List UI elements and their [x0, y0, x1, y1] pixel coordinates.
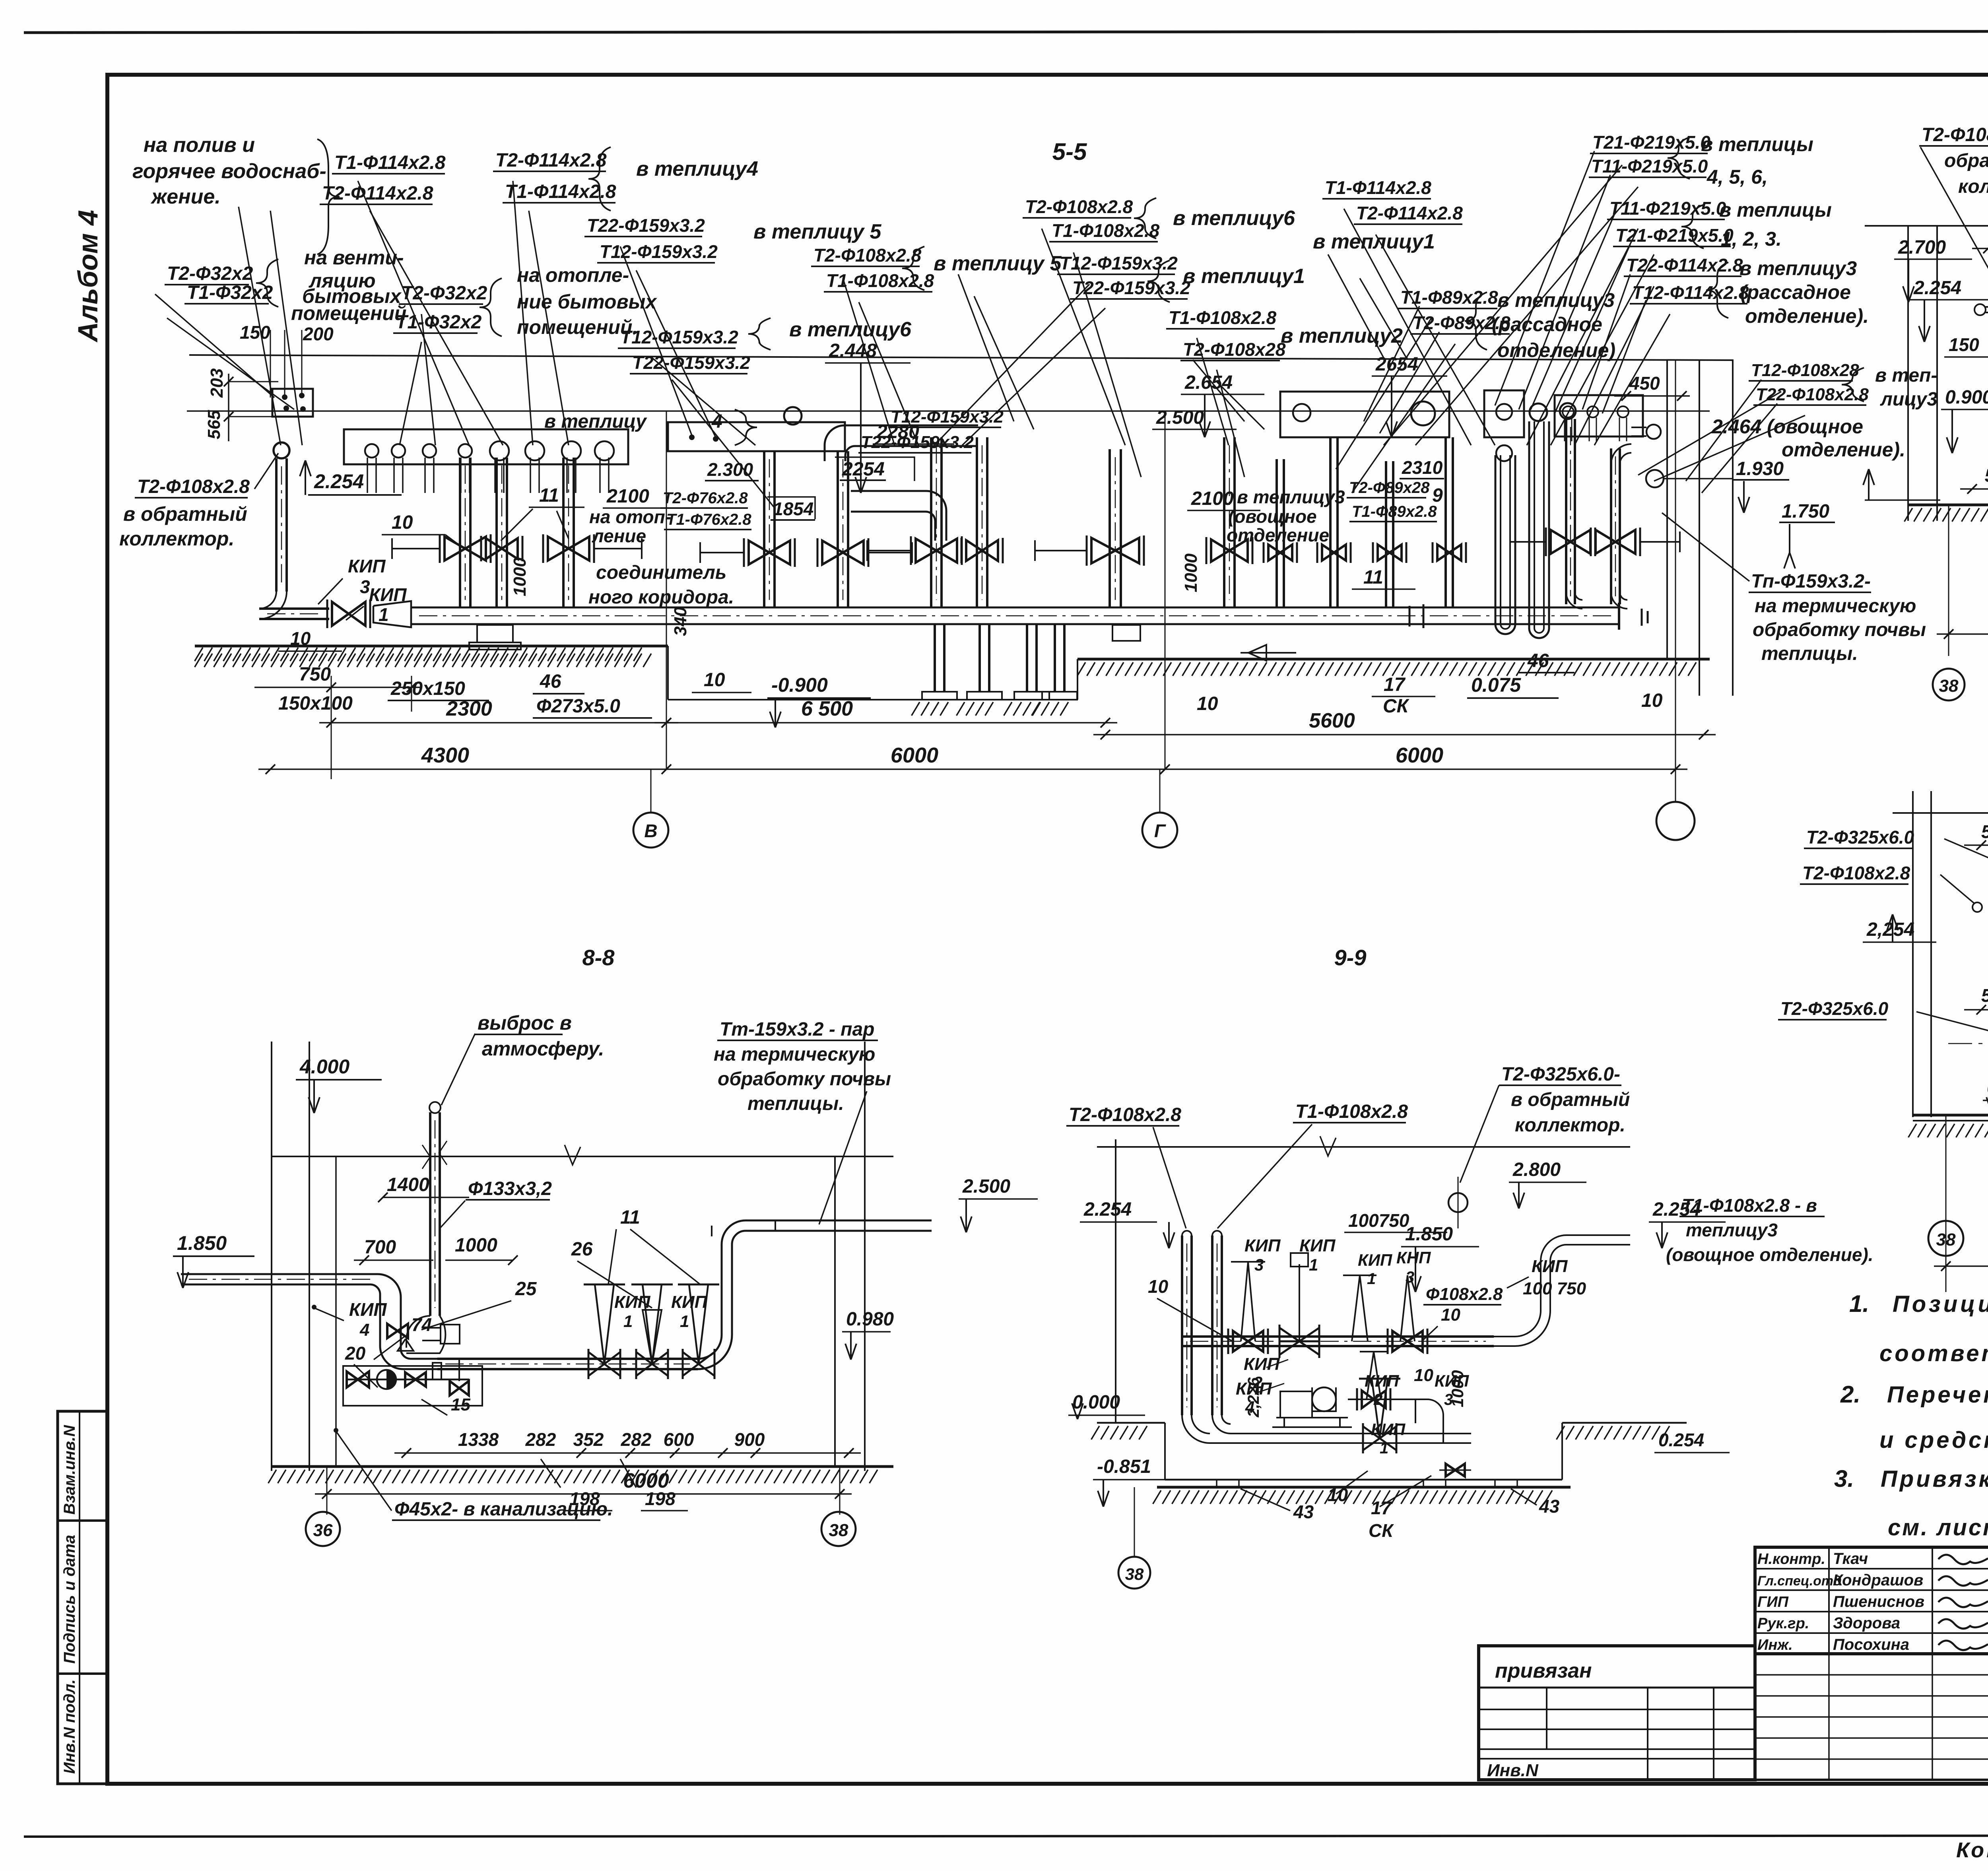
ceiling line upper	[189, 355, 1734, 360]
svg-text:10: 10	[1148, 1276, 1169, 1297]
svg-text:Альбом 4: Альбом 4	[72, 210, 103, 343]
svg-text:соответствуют спецификации.: соответствуют спецификации.	[1879, 1341, 1988, 1366]
svg-text:в теплицу 5: в теплицу 5	[934, 252, 1062, 275]
svg-text:в теп-: в теп-	[1875, 365, 1937, 386]
svg-text:в теплицу3: в теплицу3	[1237, 487, 1345, 507]
svg-text:(овощное: (овощное	[1228, 506, 1317, 527]
svg-text:10: 10	[1414, 1366, 1433, 1385]
svg-text:на отоп-: на отоп-	[589, 506, 671, 527]
valve right b	[1596, 530, 1635, 554]
below-floor pipe	[978, 624, 981, 692]
9-9 ceiling line	[1097, 1146, 1630, 1148]
svg-text:10: 10	[1641, 690, 1663, 711]
svg-text:Т2-Ф108х2.8: Т2-Ф108х2.8	[813, 245, 922, 266]
8-8 pipe joint marks upper	[711, 1226, 712, 1236]
main pipe support 1	[477, 625, 513, 642]
svg-text:2.448: 2.448	[829, 340, 877, 361]
thin drop f	[1444, 437, 1447, 608]
svg-text:Гл.спец.отд: Гл.спец.отд	[1757, 1573, 1842, 1589]
6-6 dim row	[1960, 488, 1988, 490]
svg-text:5-5: 5-5	[1052, 138, 1087, 165]
pipe outlet circle	[392, 444, 405, 458]
svg-text:Привязки труб и отверстий в: Привязки труб и отверстий в стене	[1881, 1466, 1988, 1492]
svg-text:1.850: 1.850	[177, 1232, 227, 1254]
9-9 bubble 38	[1118, 1557, 1150, 1589]
grid bubble V	[633, 813, 668, 848]
9-9 tall triangle a	[1231, 1262, 1265, 1341]
svg-text:Перечень отборных устройств: Перечень отборных устройств КИП	[1887, 1382, 1988, 1408]
svg-text:10: 10	[392, 512, 413, 533]
inlet valve bowtie	[332, 602, 365, 626]
7-7 centerline	[1948, 1043, 1988, 1044]
9-9 mid gate valve	[1279, 1328, 1319, 1355]
9-9 stem box	[1299, 1264, 1300, 1341]
8-8 bubble 38	[821, 1512, 856, 1546]
svg-text:4: 4	[359, 1320, 369, 1340]
svg-text:2.500: 2.500	[1156, 407, 1204, 428]
right elbow top circle	[1646, 425, 1661, 439]
svg-text:Т22-Ф159х3.2: Т22-Ф159х3.2	[632, 352, 750, 373]
8-8 wall right lines	[834, 1156, 836, 1467]
svg-text:600: 600	[664, 1429, 694, 1450]
svg-text:Т2-Ф114х2.8: Т2-Ф114х2.8	[495, 150, 607, 171]
svg-text:(овощное отделение).: (овощное отделение).	[1666, 1244, 1873, 1265]
svg-text:КИП: КИП	[614, 1292, 651, 1312]
svg-text:Т11-Ф219х5.0: Т11-Ф219х5.0	[1591, 156, 1708, 177]
svg-text:4.000: 4.000	[299, 1055, 349, 1078]
9-9 small circle	[1448, 1193, 1468, 1212]
svg-text:Рук.гр.: Рук.гр.	[1757, 1615, 1809, 1632]
outlet circle box5	[1587, 406, 1598, 417]
svg-text:выброс в: выброс в	[478, 1012, 572, 1034]
svg-text:в теплицу: в теплицу	[544, 411, 647, 432]
dim 750	[331, 676, 332, 779]
privyazan box	[1479, 1646, 1755, 1780]
svg-text:565: 565	[204, 410, 224, 439]
sheet top border line	[24, 31, 1988, 33]
valve on drop pipe 1	[445, 537, 486, 561]
svg-text:2254: 2254	[842, 459, 885, 480]
small globe valve 1	[1268, 545, 1292, 561]
svg-text:в теплицу1: в теплицу1	[1313, 230, 1435, 253]
svg-text:38: 38	[1939, 676, 1959, 696]
svg-text:ление: ление	[592, 526, 646, 546]
8-8 dim 6000	[315, 1493, 852, 1495]
svg-text:43: 43	[1539, 1496, 1560, 1517]
8-8 ceiling line	[272, 1156, 893, 1157]
svg-text:1, 2, 3.: 1, 2, 3.	[1721, 228, 1782, 250]
small globe valve 2	[1322, 545, 1346, 561]
brace teplitsu6 right	[1134, 198, 1156, 239]
svg-text:ного коридора.: ного коридора.	[588, 587, 734, 608]
svg-text:Т2-Ф325х6.0-: Т2-Ф325х6.0-	[1501, 1064, 1620, 1085]
small globe valve 4	[1437, 545, 1461, 561]
svg-text:Т21-Ф219х5.0: Т21-Ф219х5.0	[1615, 225, 1734, 246]
svg-text:в теплицу6: в теплицу6	[1173, 207, 1295, 230]
8-8 drain valve 2	[405, 1372, 426, 1387]
svg-text:Т12-Ф159х3.2: Т12-Ф159х3.2	[600, 241, 718, 262]
valve on drop pipe 3	[548, 537, 589, 561]
svg-text:и средств автоматики см. лис: и средств автоматики см. листы 11, 12.	[1879, 1427, 1988, 1453]
svg-text:Взам.инв.N: Взам.инв.N	[61, 1425, 78, 1515]
svg-text:КИП: КИП	[349, 1299, 387, 1320]
svg-text:1: 1	[680, 1312, 689, 1331]
brace v tep-litsu3	[1842, 368, 1864, 402]
manifold box 5	[1555, 395, 1643, 436]
svg-text:200: 200	[303, 324, 334, 344]
leader to left pipe	[254, 453, 278, 489]
dim 6 500	[654, 722, 1117, 724]
9-9 pump line	[1348, 1399, 1415, 1400]
svg-text:Т12-Ф114х2.8: Т12-Ф114х2.8	[1632, 282, 1749, 303]
valve mid 1	[916, 539, 957, 563]
svg-text:на полив и: на полив и	[144, 134, 255, 157]
svg-text:3: 3	[1254, 1255, 1264, 1274]
svg-text:коллектор: коллектор	[1958, 176, 1988, 197]
9-9 pump assembly	[1280, 1391, 1312, 1418]
outlet circle box5	[1563, 406, 1574, 417]
svg-text:Т2-Ф325х6.0: Т2-Ф325х6.0	[1806, 827, 1914, 848]
svg-text:горячее водоснаб-: горячее водоснаб-	[132, 160, 326, 183]
svg-text:см. лист 9.: см. лист 9.	[1888, 1515, 1988, 1540]
svg-text:(рассадное: (рассадное	[1740, 281, 1851, 303]
8-8 main pipe	[437, 1358, 698, 1360]
svg-text:соединитель: соединитель	[596, 562, 726, 583]
svg-text:Т1-Ф76х2.8: Т1-Ф76х2.8	[666, 511, 751, 528]
svg-text:коллектор.: коллектор.	[1515, 1115, 1625, 1136]
svg-text:1.930: 1.930	[1736, 458, 1784, 479]
svg-text:Инж.: Инж.	[1757, 1637, 1793, 1653]
grid bubble G	[1142, 813, 1177, 848]
svg-text:1000: 1000	[1448, 1370, 1467, 1407]
svg-text:38: 38	[829, 1521, 848, 1540]
svg-text:450: 450	[1629, 373, 1660, 394]
svg-text:в теплицы: в теплицы	[1719, 199, 1832, 221]
brace teplitsu3 left	[1465, 292, 1487, 350]
9-9 pipe caps	[1182, 1231, 1222, 1236]
svg-text:1000: 1000	[510, 557, 530, 596]
svg-text:Т1-Ф114х2.8: Т1-Ф114х2.8	[1325, 177, 1431, 198]
svg-text:КНП: КНП	[1396, 1248, 1431, 1267]
svg-text:38: 38	[1125, 1565, 1144, 1583]
capsule 2 top circle	[1530, 404, 1547, 421]
pipe outlet circle	[458, 444, 472, 458]
U-loop capsule 1	[1495, 455, 1515, 634]
svg-text:теплицы.: теплицы.	[1761, 643, 1858, 664]
svg-text:500: 500	[1981, 821, 1988, 842]
svg-text:0.900: 0.900	[1945, 387, 1988, 408]
svg-text:1000: 1000	[1181, 553, 1201, 592]
9-9 mid valve 2	[1392, 1331, 1423, 1352]
svg-text:0.980: 0.980	[846, 1309, 894, 1330]
svg-text:352: 352	[573, 1429, 604, 1450]
8-8 vent pipe	[429, 1112, 431, 1316]
svg-text:Здорова: Здорова	[1833, 1614, 1900, 1632]
6-6 level arrow left	[1868, 469, 1870, 500]
svg-text:Т2-Ф108х2.8: Т2-Ф108х2.8	[137, 476, 250, 497]
svg-text:38: 38	[1936, 1230, 1956, 1249]
svg-text:теплицы.: теплицы.	[747, 1093, 844, 1114]
svg-text:700: 700	[364, 1237, 396, 1258]
outlet circle box3 left	[1293, 404, 1310, 421]
drop pipe box2 b	[837, 451, 839, 608]
6-6 leader lines	[1920, 147, 1988, 310]
svg-text:46: 46	[1527, 650, 1549, 671]
brace teplitsu3 rassadnoe	[1706, 262, 1728, 318]
title block people table	[1755, 1547, 1988, 1654]
9-9 feet	[1217, 1480, 1239, 1487]
svg-text:(рассадное: (рассадное	[1492, 313, 1602, 336]
svg-text:обработку почвы: обработку почвы	[1753, 619, 1926, 640]
left vertical pipe T2-108	[274, 442, 289, 458]
wall connection box with 4 dots	[272, 389, 313, 417]
svg-text:Т1-Ф32х2: Т1-Ф32х2	[187, 282, 273, 303]
riser lines above connection box	[284, 330, 285, 397]
svg-text:привязан: привязан	[1495, 1659, 1592, 1682]
main pipe 273x5	[411, 607, 1619, 609]
svg-text:в теплицу6: в теплицу6	[789, 318, 912, 341]
svg-text:Т2-Ф114х2.8: Т2-Ф114х2.8	[322, 183, 433, 204]
svg-text:2654: 2654	[1375, 354, 1418, 375]
9-9 pipes vertical pair	[1181, 1236, 1183, 1415]
svg-text:4: 4	[711, 411, 722, 432]
valve on drop pipe 2	[486, 538, 518, 559]
riser circle at header	[784, 407, 802, 425]
floor trench	[667, 646, 669, 700]
svg-text:2100: 2100	[1191, 488, 1234, 509]
svg-text:Т1-Ф108х2.8: Т1-Ф108х2.8	[1295, 1101, 1408, 1122]
svg-text:5600: 5600	[1309, 709, 1355, 732]
svg-text:1: 1	[1380, 1439, 1388, 1457]
svg-text:на отопле-: на отопле-	[517, 264, 629, 286]
brace teplitsu6 left	[748, 318, 771, 350]
svg-text:Т12-Ф108х28: Т12-Ф108х28	[1751, 361, 1859, 380]
drop pipe mid 1	[930, 437, 932, 608]
8-8 drain valve 3	[450, 1381, 469, 1395]
svg-text:КИП: КИП	[671, 1292, 708, 1312]
svg-text:2.500: 2.500	[962, 1176, 1010, 1197]
right pipe with valve a	[1560, 403, 1576, 419]
svg-text:Т22-Ф159х3.2: Т22-Ф159х3.2	[587, 215, 705, 236]
svg-text:0.254: 0.254	[1658, 1430, 1704, 1450]
valve b	[1211, 539, 1248, 562]
main pipe sleeve joint	[1409, 606, 1411, 627]
7-7 left vertical lines	[1912, 791, 1914, 1117]
svg-text:-0.900: -0.900	[771, 674, 828, 696]
sheet bottom border	[24, 1835, 1988, 1837]
svg-text:750: 750	[299, 664, 331, 685]
svg-text:1.850: 1.850	[1405, 1224, 1453, 1245]
svg-text:10: 10	[704, 669, 725, 691]
svg-text:0.075: 0.075	[1471, 674, 1521, 696]
brace teplitsu1	[1147, 260, 1170, 302]
svg-text:250х150: 250х150	[390, 678, 465, 699]
svg-text:1.750: 1.750	[1782, 501, 1829, 522]
8-8 tall valves group	[588, 1352, 620, 1376]
svg-text:Т2-Ф32х2: Т2-Ф32х2	[167, 263, 253, 284]
svg-text:2310: 2310	[1402, 457, 1443, 478]
svg-text:отделение: отделение	[1227, 525, 1329, 545]
pipe outlet circle	[490, 441, 509, 460]
svg-text:КИП: КИП	[1371, 1420, 1406, 1439]
manifold box 1	[344, 429, 628, 464]
svg-text:1.: 1.	[1849, 1290, 1869, 1317]
svg-text:500: 500	[1981, 985, 1988, 1006]
svg-text:в теплицу1: в теплицу1	[1183, 265, 1305, 288]
svg-text:2.654: 2.654	[1184, 372, 1233, 393]
9-9 elbow pump down	[1415, 1399, 1443, 1443]
8-8 drain valve 1	[347, 1372, 369, 1387]
svg-text:в теплицу3: в теплицу3	[1739, 257, 1857, 279]
svg-text:4, 5, 6,: 4, 5, 6,	[1706, 166, 1768, 188]
svg-text:Т2-Ф108х2.8: Т2-Ф108х2.8	[1025, 196, 1133, 217]
wall line b	[1699, 360, 1700, 696]
brace ventilation	[256, 259, 278, 307]
svg-text:1: 1	[1367, 1270, 1376, 1288]
7-7 small circle T2-108	[1972, 902, 1982, 912]
svg-text:150: 150	[240, 322, 270, 343]
8-8 drain pipe	[346, 1379, 469, 1381]
pipe outlet circle	[525, 441, 544, 460]
svg-text:6000: 6000	[891, 743, 938, 767]
svg-text:150: 150	[1949, 334, 1979, 355]
svg-text:2.700: 2.700	[1898, 237, 1946, 258]
svg-text:74: 74	[412, 1314, 432, 1335]
6-6 bubble 38	[1933, 669, 1965, 700]
svg-text:Позиции оборудования, арматур: Позиции оборудования, арматуры	[1893, 1291, 1988, 1317]
svg-text:3.: 3.	[1834, 1465, 1854, 1492]
svg-text:Т1-Ф89х2.8: Т1-Ф89х2.8	[1352, 503, 1437, 520]
valve on box2 pipe a	[749, 541, 790, 565]
svg-text:Г: Г	[1154, 821, 1166, 841]
svg-text:КИП: КИП	[1358, 1251, 1392, 1269]
svg-text:Т2-Ф32х2: Т2-Ф32х2	[401, 283, 487, 304]
small globe valve 3	[1378, 545, 1402, 561]
dim 2300 row	[319, 722, 678, 724]
long drop pipe b	[1223, 437, 1225, 608]
svg-text:Инв.N: Инв.N	[1487, 1761, 1539, 1780]
svg-text:обратный: обратный	[1944, 150, 1988, 171]
ceiling line lower	[187, 410, 1710, 412]
inv row	[1479, 1758, 1755, 1760]
svg-text:2.: 2.	[1840, 1381, 1860, 1408]
svg-text:Т2-Ф325х6.0: Т2-Ф325х6.0	[1780, 998, 1889, 1019]
svg-text:на термическую: на термическую	[714, 1044, 875, 1065]
7-7 dim 6000	[1934, 1265, 1988, 1267]
8-8 vent elbow to horizontal	[406, 1316, 430, 1348]
svg-text:Ф273х5.0: Ф273х5.0	[536, 696, 620, 717]
svg-text:11: 11	[620, 1207, 640, 1228]
floor line left	[195, 645, 668, 648]
svg-text:Н.контр.: Н.контр.	[1757, 1551, 1825, 1567]
svg-text:2.254: 2.254	[314, 470, 364, 493]
svg-text:100 750: 100 750	[1523, 1279, 1586, 1298]
svg-text:1400: 1400	[387, 1174, 429, 1195]
9-9 tall triangle b	[1343, 1275, 1376, 1341]
brace teplitsa4	[588, 147, 611, 211]
brace teplitsy123	[1681, 205, 1704, 248]
valve mid 2	[966, 540, 998, 561]
svg-text:в теплицу 5: в теплицу 5	[753, 220, 881, 243]
svg-text:Т22-Ф159х3.2: Т22-Ф159х3.2	[1072, 277, 1190, 298]
svg-text:Т2-Ф108х2.8 - б: Т2-Ф108х2.8 - б	[1922, 124, 1988, 145]
6-6 left wall lines	[1907, 226, 1909, 521]
privyazan grid	[1479, 1687, 1755, 1689]
svg-text:9-9: 9-9	[1334, 945, 1367, 970]
svg-text:Т1-Ф114х2.8: Т1-Ф114х2.8	[334, 152, 446, 173]
svg-text:Пшениснов: Пшениснов	[1833, 1593, 1924, 1610]
svg-text:теплицу3: теплицу3	[1686, 1220, 1778, 1240]
svg-text:150х100: 150х100	[278, 693, 353, 714]
7-7 bubble 38	[1928, 1221, 1963, 1256]
wall pass circle	[1646, 470, 1664, 487]
drop pipe 2	[495, 458, 498, 608]
9-9 valve on pump line	[1362, 1391, 1386, 1408]
svg-text:отделение).: отделение).	[1745, 305, 1869, 327]
svg-text:2300: 2300	[446, 697, 492, 720]
svg-text:2,226: 2,226	[1245, 1377, 1262, 1418]
svg-text:Т2-Ф76х2.8: Т2-Ф76х2.8	[663, 489, 748, 507]
people table lower part	[1755, 1654, 1988, 1780]
9-9 elbows at bottom	[1182, 1415, 1471, 1443]
9-9 small drain valve	[1446, 1464, 1465, 1476]
9-9 mid valve 1	[1233, 1331, 1263, 1352]
inlet reducer	[373, 601, 411, 627]
svg-text:500: 500	[1985, 465, 1988, 486]
svg-text:в теплицу4: в теплицу4	[636, 157, 758, 180]
valve on box2 pipe b	[822, 541, 864, 565]
below-floor pipe	[1026, 624, 1028, 692]
svg-text:11: 11	[539, 485, 559, 506]
svg-text:340: 340	[671, 607, 690, 636]
left pipe elbow	[259, 592, 276, 609]
svg-text:Т2-Ф89х28: Т2-Ф89х28	[1349, 479, 1430, 497]
9-9 middle pipe	[1182, 1335, 1494, 1338]
svg-text:20: 20	[345, 1343, 366, 1364]
svg-text:отделение).: отделение).	[1782, 438, 1905, 461]
svg-text:3: 3	[1406, 1269, 1414, 1286]
svg-text:1: 1	[623, 1312, 633, 1331]
svg-text:1338: 1338	[458, 1429, 499, 1450]
svg-text:6000: 6000	[1396, 743, 1443, 767]
drop pipe 3	[562, 458, 565, 608]
floor hatch left	[195, 648, 642, 661]
8-8 pump dot	[377, 1370, 396, 1389]
svg-text:коллектор.: коллектор.	[119, 528, 234, 550]
elbow pipe up-right a	[825, 425, 978, 461]
7-7 top line	[1893, 812, 1988, 814]
svg-text:Копировал Салова: Копировал Салова	[1956, 1838, 1988, 1862]
svg-text:помещений.: помещений.	[517, 316, 638, 338]
valve right a	[1551, 530, 1590, 554]
elbow pipe lower b	[918, 491, 946, 541]
svg-text:КИП: КИП	[1299, 1236, 1336, 1255]
svg-text:Инв.N подл.: Инв.N подл.	[61, 1679, 78, 1774]
manifold box 4	[1484, 390, 1524, 437]
svg-text:ГИП: ГИП	[1757, 1594, 1789, 1610]
svg-text:100750: 100750	[1348, 1210, 1409, 1231]
9-9 base plate	[1157, 1486, 1571, 1489]
svg-text:КИП: КИП	[1244, 1236, 1281, 1255]
pipe outlet circle	[595, 441, 614, 460]
svg-text:Т12-Ф159х3.2: Т12-Ф159х3.2	[891, 407, 1004, 427]
svg-text:26: 26	[571, 1239, 593, 1260]
svg-text:282: 282	[525, 1429, 556, 1450]
8-8 right elbow up	[698, 1220, 932, 1359]
svg-text:Т12-Ф159х3.2: Т12-Ф159х3.2	[620, 327, 738, 347]
8-8 dim row	[394, 1452, 861, 1454]
svg-text:в теплицу2: в теплицу2	[1281, 324, 1403, 347]
